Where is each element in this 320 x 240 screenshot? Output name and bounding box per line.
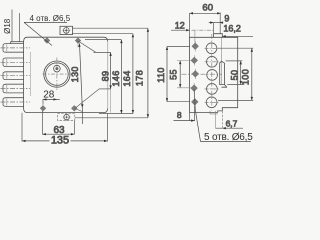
dim 164 line: [132, 34, 134, 114]
dim 130 line: [80, 43, 83, 124]
extension line y39.6 (146 top): [85, 39, 121, 41]
top feature rect: [60, 26, 73, 34]
dim 130 jog: [75, 89, 99, 112]
extension line y33.7 (164 top): [73, 33, 133, 35]
dim 100 line: [251, 48, 253, 100]
inner wall line: [30, 52, 32, 96]
bottom feature ext line: [75, 117, 148, 119]
svg-text:4 отв. Ø6,5: 4 отв. Ø6,5: [30, 14, 71, 23]
dim 6,7 ext lines: [221, 111, 223, 129]
boss 1 centerline: [1, 47, 31, 49]
dim 89 line lower continuation: [110, 89, 112, 113]
jog to dim 89: [78, 41, 111, 52]
svg-text:55: 55: [168, 69, 178, 80]
svg-text:Ø18: Ø18: [3, 18, 12, 34]
dim 9 line: [209, 22, 223, 24]
rv circle 2: [207, 56, 218, 67]
rv circle 3: [207, 70, 218, 81]
hole bottom-left diamond: [40, 105, 46, 111]
rv column centerline: [211, 34, 213, 111]
dim 100 ext lines: [218, 48, 254, 100]
dim 135 ext left: [21, 113, 23, 142]
svg-text:178: 178: [134, 70, 144, 86]
boss 3: [3, 72, 24, 80]
svg-text:9: 9: [224, 14, 229, 24]
hole bottom-right diamond: [71, 105, 77, 111]
dim 89 bottom ext: [99, 88, 111, 90]
boss inner cap lines: [6, 44, 8, 105]
dim 178 line: [147, 28, 149, 118]
right view bottom foot: [210, 111, 218, 114]
hole top-right diamond: [75, 38, 81, 44]
svg-text:130: 130: [70, 66, 80, 82]
svg-text:110: 110: [156, 67, 166, 83]
dim 9 ext lines: [213, 23, 215, 34]
big circle outer: [44, 61, 70, 87]
dim 28 line: [43, 98, 60, 100]
boss 3 centerline: [1, 75, 31, 77]
dim 8 ext lines: [190, 105, 195, 121]
rv circle 5: [206, 97, 217, 108]
extension line y28 (178 top): [73, 27, 148, 29]
dim 135 ext right: [107, 114, 109, 142]
dim 110 ext lines: [167, 47, 190, 102]
boss 5 centerline: [1, 101, 31, 103]
rv mid centerline: [182, 73, 223, 75]
dim 63 ext right: [73, 121, 75, 135]
svg-text:16,2: 16,2: [223, 24, 241, 34]
dim 28 ext: [42, 99, 44, 104]
small screw circle: [54, 65, 61, 72]
diamond2 tick: [77, 37, 79, 47]
dim 55 line: [179, 61, 181, 88]
boss 2: [3, 58, 24, 67]
bottom feature circle: [64, 114, 70, 120]
dim 146 line: [120, 40, 122, 114]
dia-18 extension line a: [11, 10, 13, 42]
inner vertical edge: [221, 37, 223, 61]
svg-text:6,7: 6,7: [226, 118, 238, 128]
dim 60 line: [190, 12, 221, 14]
rv diamond 1: [192, 43, 199, 50]
rv circle 1: [206, 43, 217, 54]
plate outline (left view): [24, 37, 108, 112]
dim 16,2 line: [222, 35, 253, 37]
rv diamond 4: [191, 85, 198, 92]
svg-text:8: 8: [177, 110, 182, 120]
svg-text:164: 164: [122, 70, 132, 86]
rv diamond 3: [192, 71, 199, 78]
right view outline: [190, 37, 238, 112]
dim 55 ext lines: [177, 61, 191, 88]
dim 110 line: [166, 47, 168, 102]
svg-text:89: 89: [100, 71, 110, 82]
dim 60 ext lines: [190, 13, 221, 38]
svg-text:5 отв. Ø6,5: 5 отв. Ø6,5: [204, 132, 253, 143]
right view top tab: [214, 34, 223, 38]
svg-text:12: 12: [175, 20, 185, 30]
dim 6,7 line: [216, 127, 243, 129]
boss 5: [3, 98, 24, 107]
svg-text:60: 60: [202, 2, 213, 13]
rv circle 4: [207, 84, 218, 95]
hole top-left diamond: [44, 38, 50, 44]
dim 12 line: [171, 29, 190, 31]
dim 12 ext: [194, 30, 196, 43]
svg-text:28: 28: [43, 90, 55, 101]
dim 89 line: [110, 52, 112, 89]
big circle v-centerline: [56, 58, 58, 92]
top-left step: [11, 42, 24, 44]
plate bottom ext line: [99, 113, 133, 115]
boss 4: [3, 84, 24, 93]
dia-18 extension line b: [19, 13, 21, 42]
dim 63 line: [42, 133, 74, 135]
rv row centerlines: [205, 47, 220, 49]
big circle inner: [46, 63, 69, 86]
boss 2 centerline: [1, 61, 31, 63]
boss 1: [3, 44, 24, 53]
big circle h-centerline: [43, 73, 72, 75]
side strip inner line: [221, 62, 223, 85]
svg-text:50: 50: [230, 70, 240, 81]
leader 4-holes: [24, 22, 67, 45]
dim 50 ext lines: [226, 61, 244, 85]
dim 12 centerline continuation: [192, 29, 214, 31]
dim 50 line: [240, 61, 242, 85]
dim 135 line: [22, 140, 108, 142]
svg-text:100: 100: [241, 69, 251, 85]
dim 8 line: [174, 120, 195, 122]
dim 63 ext left: [41, 111, 43, 135]
top feature circle: [63, 28, 69, 34]
leader 5-holes: [194, 90, 251, 142]
rv diamond 2: [191, 57, 198, 64]
bottom feature rect: [58, 114, 75, 121]
rv diamond ticks: [194, 41, 195, 107]
boss 4 centerline: [1, 88, 31, 90]
rv diamond 5: [191, 99, 198, 106]
side strip: [220, 61, 227, 87]
svg-text:146: 146: [111, 70, 121, 86]
svg-text:135: 135: [51, 134, 69, 146]
